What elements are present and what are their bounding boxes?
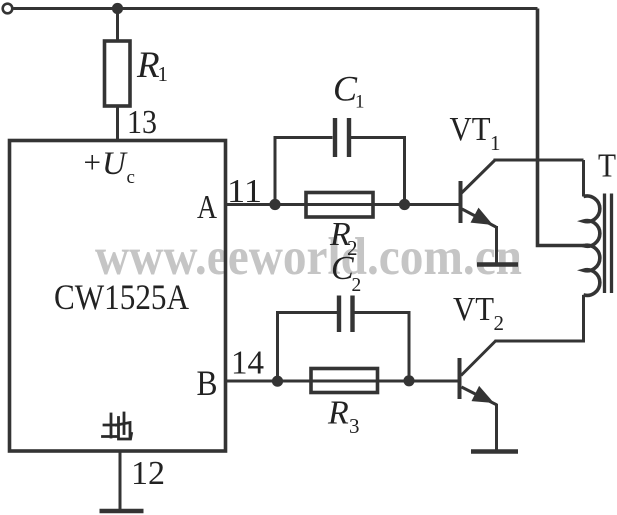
svg-text:R: R <box>136 45 160 86</box>
svg-text:14: 14 <box>231 345 264 382</box>
svg-text:1: 1 <box>355 92 365 113</box>
svg-text:3: 3 <box>349 414 360 438</box>
svg-text:R: R <box>327 395 349 432</box>
svg-text:2: 2 <box>494 311 505 335</box>
svg-text:VT: VT <box>450 111 491 148</box>
svg-text:1: 1 <box>490 131 501 155</box>
svg-text:VT: VT <box>453 291 494 328</box>
svg-text:A: A <box>197 189 217 226</box>
svg-text:B: B <box>197 363 218 403</box>
svg-text:11: 11 <box>227 173 262 210</box>
svg-text:12: 12 <box>131 455 165 492</box>
svg-text:+: + <box>84 145 101 180</box>
svg-text:c: c <box>127 167 135 188</box>
svg-text:1: 1 <box>158 62 169 86</box>
svg-text:CW1525A: CW1525A <box>54 277 189 317</box>
svg-text:T: T <box>598 148 616 185</box>
svg-text:U: U <box>102 146 128 182</box>
svg-text:13: 13 <box>127 104 157 141</box>
svg-text:2: 2 <box>352 275 362 296</box>
